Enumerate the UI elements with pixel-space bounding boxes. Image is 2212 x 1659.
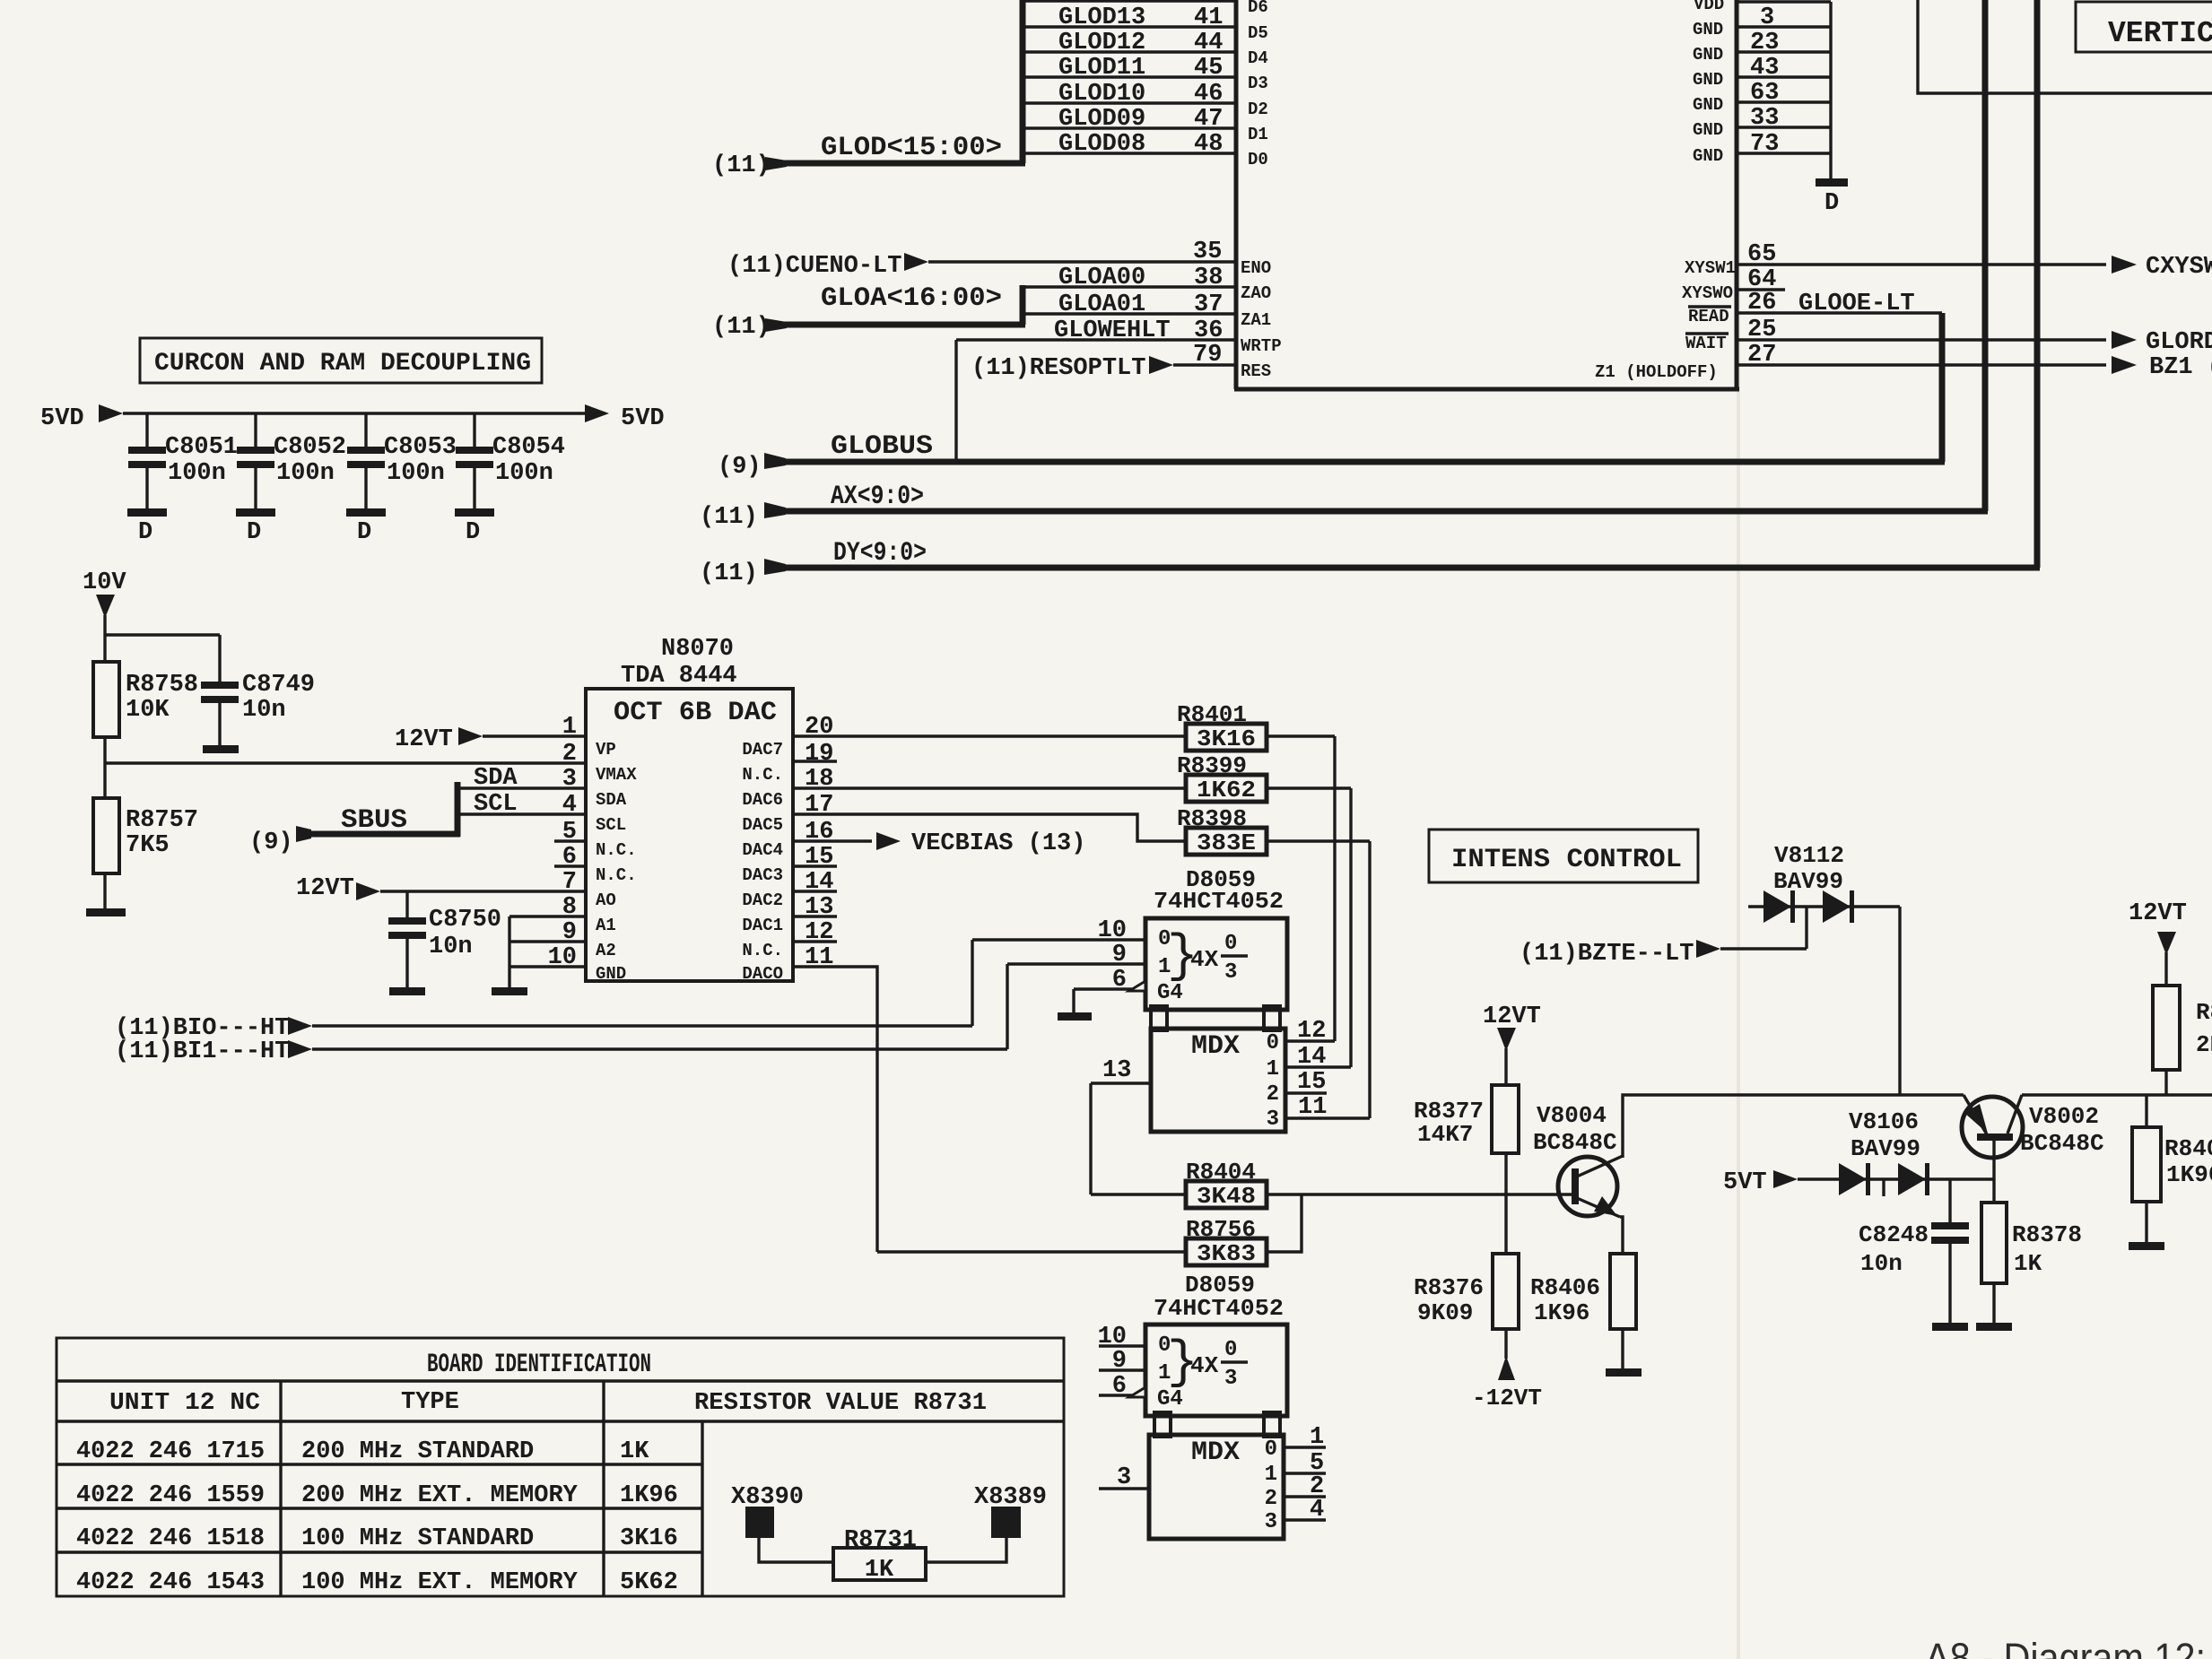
node: 12VT (right) to R8403 — [2129, 900, 2187, 986]
svg-text:0: 0 — [1224, 932, 1237, 956]
wire: RESOPTLT to pin 79 RES — [971, 342, 1271, 382]
svg-text:A8 - Diagram 12:: A8 - Diagram 12: — [1925, 1635, 2206, 1659]
svg-text:1K: 1K — [2014, 1250, 2042, 1277]
svg-text:12VT: 12VT — [1483, 1003, 1541, 1030]
ground (R8378) — [1976, 1323, 2012, 1331]
svg-text:4X: 4X — [1190, 1352, 1219, 1379]
svg-text:G4: G4 — [1157, 1387, 1183, 1411]
svg-text:74HCT4052: 74HCT4052 — [1154, 1295, 1284, 1322]
svg-text:DACO: DACO — [742, 964, 783, 984]
svg-text:A2: A2 — [596, 941, 616, 960]
node: BZTE--LT from (11) — [1520, 907, 1807, 968]
svg-text:C8051: C8051 — [165, 434, 238, 461]
svg-text:15: 15 — [1297, 1069, 1326, 1096]
svg-text:VDD: VDD — [1694, 0, 1724, 14]
svg-text:1K96: 1K96 — [1534, 1299, 1589, 1326]
svg-text:37: 37 — [1194, 291, 1223, 318]
svg-text:GLOD09: GLOD09 — [1058, 106, 1145, 133]
svg-text:25: 25 — [1747, 317, 1776, 343]
caption: A8 - Diagram 12: — [1925, 1635, 2206, 1659]
svg-text:100n: 100n — [276, 460, 335, 487]
svg-text:10V: 10V — [83, 569, 126, 596]
svg-text:BZ1 (: BZ1 ( — [2149, 354, 2212, 381]
svg-text:12VT: 12VT — [395, 726, 453, 753]
svg-text:UNIT 12 NC: UNIT 12 NC — [109, 1390, 260, 1417]
svg-text:AO: AO — [596, 890, 616, 910]
svg-text:READ: READ — [1688, 307, 1729, 326]
svg-text:R84: R84 — [2196, 999, 2212, 1026]
svg-text:1: 1 — [1310, 1424, 1324, 1451]
svg-text:3: 3 — [1267, 1107, 1279, 1132]
svg-text:N.C.: N.C. — [596, 865, 637, 885]
capacitor C8750 10n — [388, 891, 501, 995]
svg-text:GND: GND — [1693, 20, 1723, 39]
svg-text:GLOOE-LT: GLOOE-LT — [1798, 291, 1915, 317]
box: INTENS CONTROL title — [1429, 829, 1698, 882]
svg-text:1: 1 — [1267, 1057, 1279, 1081]
svg-text:43: 43 — [1750, 55, 1779, 82]
svg-text:(11)BI1---HT: (11)BI1---HT — [115, 1038, 289, 1065]
wire: DAC pin 17 DAC5 jog to R8398 — [793, 814, 1186, 841]
svg-text:C8750: C8750 — [429, 907, 501, 934]
transistor V8004 BC848C — [1533, 1102, 1623, 1217]
svg-text:TDA 8444: TDA 8444 — [621, 663, 737, 690]
wire: SDA to pin 3 — [457, 765, 586, 792]
wire: DAC pin 12 stub — [793, 940, 837, 942]
svg-text:CURCON AND RAM DECOUPLING: CURCON AND RAM DECOUPLING — [154, 350, 531, 378]
svg-text:BAV99: BAV99 — [1773, 868, 1843, 895]
wire: GND pins common to ground — [1829, 2, 1832, 180]
svg-text:0: 0 — [1267, 1031, 1279, 1055]
wire: GLOD10 row, pin 46, D2 — [1023, 81, 1268, 119]
svg-text:100 MHz EXT. MEMORY: 100 MHz EXT. MEMORY — [301, 1569, 579, 1596]
wire: corner line top right — [1918, 0, 2212, 93]
svg-text:9: 9 — [1112, 1348, 1127, 1375]
svg-text:10K: 10K — [126, 697, 170, 724]
4052 lower pin 9 — [1099, 1348, 1145, 1375]
svg-text:D2: D2 — [1248, 100, 1268, 119]
svg-text:DAC7: DAC7 — [742, 740, 783, 760]
svg-text:3: 3 — [562, 766, 577, 793]
svg-text:2: 2 — [1265, 1487, 1277, 1511]
svg-text:R8757: R8757 — [126, 807, 198, 834]
svg-text:4X: 4X — [1190, 946, 1219, 973]
wire: V8112 output down to intensity node — [1898, 907, 1901, 1095]
svg-text:WRTP: WRTP — [1241, 336, 1282, 356]
svg-text:V8002: V8002 — [2029, 1103, 2099, 1130]
svg-text:5VT: 5VT — [1723, 1169, 1767, 1196]
svg-text:14K7: 14K7 — [1417, 1121, 1473, 1148]
svg-text:ZAO: ZAO — [1241, 283, 1271, 303]
svg-text:10n: 10n — [429, 934, 473, 960]
wire: BIO---HT from (11) to 4052 pin 10 — [115, 940, 972, 1042]
wire: DAC pin 14 stub — [793, 890, 837, 892]
wire: V8002 base to 5VT node — [1992, 1141, 1995, 1203]
node: DY<9:0> bus from (11) — [700, 538, 2040, 587]
svg-text:(11)RESOPTLT: (11)RESOPTLT — [971, 355, 1145, 382]
svg-text:DAC5: DAC5 — [742, 815, 783, 835]
svg-text:12VT: 12VT — [296, 875, 354, 902]
resistor R8405 1K96 (clipped at edge) — [2132, 1095, 2212, 1244]
svg-text:GLOD11: GLOD11 — [1058, 55, 1145, 82]
DAC pin numbers right 20-11 — [805, 714, 833, 971]
svg-text:GLOA01: GLOA01 — [1058, 291, 1145, 318]
svg-text:WAIT: WAIT — [1685, 334, 1727, 353]
svg-text:2K: 2K — [2196, 1031, 2212, 1058]
node: -12VT supply — [1472, 1356, 1542, 1411]
svg-text:D6: D6 — [1248, 0, 1268, 17]
wire: DAC pin 11 DACO down to R8756 line — [793, 967, 877, 1252]
wire: intensity node right of V8002 to edge — [2022, 1093, 2212, 1096]
MDX upper right pins 0/12 1/14 2/15 3/11 — [1267, 1018, 1370, 1132]
svg-text:63: 63 — [1750, 80, 1779, 107]
svg-text:GLOBUS: GLOBUS — [831, 431, 933, 462]
pin VDD row (pin 3 box) — [1694, 0, 1831, 31]
svg-text:GND: GND — [1693, 70, 1723, 90]
svg-text:4022 246 1715: 4022 246 1715 — [76, 1438, 265, 1465]
box: CURCON AND RAM DECOUPLING title — [140, 338, 542, 383]
svg-text:41: 41 — [1194, 4, 1223, 31]
svg-text:6: 6 — [1112, 1373, 1127, 1400]
svg-text:5VD: 5VD — [40, 405, 84, 432]
svg-text:D: D — [247, 519, 261, 546]
svg-text:D: D — [357, 519, 371, 546]
svg-text:100n: 100n — [387, 460, 445, 487]
svg-text:TYPE: TYPE — [401, 1389, 459, 1416]
wire: V8004 collector up to intensity node — [1623, 1095, 1964, 1158]
node: 5VT supply — [1723, 1169, 1994, 1196]
svg-text:D4: D4 — [1248, 48, 1268, 68]
svg-text:GND: GND — [596, 964, 626, 984]
svg-text:36: 36 — [1194, 317, 1223, 344]
svg-text:SDA: SDA — [596, 790, 627, 810]
svg-text:SDA: SDA — [474, 765, 518, 792]
wire: 10V to R8758 and C8749 — [105, 635, 220, 683]
pin GND 73 — [1693, 120, 1831, 166]
svg-text:GND: GND — [1693, 146, 1723, 166]
wire: CUENO-LT to pin 35 ENO — [727, 239, 1271, 280]
svg-text:(11): (11) — [712, 152, 771, 179]
svg-text:DAC4: DAC4 — [742, 840, 783, 860]
wire: DAC pin 18 DAC6 to R8399 — [793, 786, 1186, 789]
svg-text:74HCT4052: 74HCT4052 — [1154, 888, 1284, 915]
IC MDX (lower multiplexer section) — [1149, 1435, 1284, 1539]
svg-text:GLOD<15:00>: GLOD<15:00> — [821, 133, 1002, 163]
wire: pin 64 XYSWO stub — [1682, 266, 1785, 303]
capacitor C8054 100n — [455, 413, 565, 546]
wire: V8004 emitter down to R8406 — [1620, 1217, 1623, 1254]
svg-text:-12VT: -12VT — [1472, 1385, 1542, 1411]
svg-text:V8106: V8106 — [1849, 1108, 1919, 1135]
svg-text:D: D — [466, 519, 480, 546]
svg-text:(11): (11) — [712, 314, 771, 341]
svg-text:4022 246 1559: 4022 246 1559 — [76, 1482, 265, 1509]
MDX upper pin 13 — [1091, 1057, 1151, 1194]
svg-text:11: 11 — [1298, 1094, 1327, 1121]
diode V8112 BAV99 (dual) — [1748, 842, 1900, 923]
svg-text:V8112: V8112 — [1774, 842, 1844, 869]
svg-text:DAC3: DAC3 — [742, 865, 783, 885]
svg-text:MDX: MDX — [1191, 1031, 1240, 1062]
svg-text:GND: GND — [1693, 95, 1723, 115]
svg-text:200 MHz EXT. MEMORY: 200 MHz EXT. MEMORY — [301, 1482, 579, 1509]
ground (R8405) — [2129, 1242, 2164, 1250]
IC MDX (upper multiplexer section) — [1151, 1029, 1285, 1132]
svg-text:48: 48 — [1194, 131, 1223, 158]
svg-text:10: 10 — [1098, 917, 1127, 944]
wire: VMAX node (R8758/R8757 junction to pin 2) — [105, 737, 586, 798]
resistor R8404 3K48 — [1091, 1159, 1267, 1210]
svg-text:33: 33 — [1750, 105, 1779, 132]
svg-text:R8406: R8406 — [1530, 1274, 1600, 1301]
svg-text:3: 3 — [1760, 4, 1774, 31]
svg-text:(9): (9) — [249, 829, 293, 856]
svg-text:3: 3 — [1117, 1464, 1131, 1491]
svg-text:ENO: ENO — [1241, 258, 1271, 278]
svg-text:4022 246 1518: 4022 246 1518 — [76, 1525, 265, 1552]
resistor R8757 7K5 — [93, 798, 198, 910]
resistor R8403 2K (clipped at edge) — [2153, 986, 2212, 1095]
svg-text:SCL: SCL — [474, 791, 518, 818]
node: AX bus vertical — [1982, 0, 1989, 511]
DAC pin labels right — [742, 740, 783, 984]
node: 12VT to DAC pin 7 (AO) — [296, 875, 586, 902]
svg-text:4: 4 — [1310, 1497, 1324, 1524]
svg-text:D: D — [1824, 190, 1839, 217]
svg-text:BOARD IDENTIFICATION: BOARD IDENTIFICATION — [427, 1350, 651, 1380]
svg-text:10n: 10n — [242, 697, 286, 724]
pin GND 23 — [1693, 20, 1831, 56]
svg-text:C8248: C8248 — [1859, 1221, 1929, 1248]
svg-text:1: 1 — [1265, 1463, 1277, 1487]
svg-text:N.C.: N.C. — [742, 941, 783, 960]
svg-text:23: 23 — [1750, 30, 1779, 56]
svg-text:OCT 6B DAC: OCT 6B DAC — [614, 698, 777, 728]
svg-text:R8378: R8378 — [2012, 1221, 2082, 1248]
svg-text:3: 3 — [1224, 1367, 1237, 1391]
svg-text:100n: 100n — [168, 460, 226, 487]
svg-text:D: D — [138, 519, 152, 546]
svg-text:DAC2: DAC2 — [742, 890, 783, 910]
svg-text:4022 246 1543: 4022 246 1543 — [76, 1569, 265, 1596]
node: 5VD rail — [40, 404, 665, 432]
svg-text:SCL: SCL — [596, 815, 626, 835]
svg-text:12: 12 — [1297, 1018, 1326, 1045]
4052 lower pin 10 — [1098, 1324, 1145, 1351]
svg-text:3K48: 3K48 — [1197, 1183, 1256, 1210]
wire: DAC pin 16 DAC4 to VECBIAS — [793, 830, 1085, 857]
svg-text:GND: GND — [1693, 120, 1723, 140]
IC D8059 74HCT4052 (upper) — [1145, 866, 1287, 1010]
svg-text:0: 0 — [1265, 1438, 1277, 1462]
svg-text:27: 27 — [1747, 342, 1776, 369]
wire: GLOWEHLT row, pin 36, WRTP (branches to GLOBUS) — [956, 317, 1282, 462]
wire: DAC pins 8,9,10 common to ground — [509, 916, 586, 989]
svg-text:5K62: 5K62 — [620, 1569, 678, 1596]
capacitor C8749 10n — [201, 672, 315, 753]
svg-text:13: 13 — [1102, 1057, 1131, 1084]
4052 lower to MDX connecting tabs — [1154, 1412, 1280, 1437]
svg-text:ZA1: ZA1 — [1241, 310, 1271, 330]
MDX lower pin 3 — [1099, 1464, 1149, 1491]
node: DY bus vertical — [2034, 0, 2041, 568]
svg-text:100n: 100n — [495, 460, 553, 487]
ground (R8406) — [1606, 1368, 1642, 1377]
resistor R8398 383E — [1177, 805, 1267, 856]
svg-text:C8053: C8053 — [384, 434, 457, 461]
wire: GLOA01 row, pin 37, ZA1 — [1023, 291, 1271, 330]
svg-text:AX<9:0>: AX<9:0> — [831, 482, 924, 512]
4052 upper internal legend — [1157, 927, 1248, 1005]
capacitor C8052 100n — [236, 413, 346, 546]
svg-text:R840: R840 — [2164, 1135, 2212, 1162]
node: 10V supply — [83, 569, 126, 635]
resistor R8377 14K7 — [1414, 1085, 1519, 1254]
4052 upper to MDX connecting tabs — [1151, 1006, 1280, 1030]
svg-text:3: 3 — [1224, 960, 1237, 985]
capacitor C8248 10n — [1859, 1179, 1969, 1325]
wire: base node line to V8004 — [1267, 1193, 1572, 1195]
svg-text:2: 2 — [562, 741, 577, 768]
svg-text:N.C.: N.C. — [742, 765, 783, 785]
svg-text:GLOWEHLT: GLOWEHLT — [1054, 317, 1171, 344]
wire: pin 65 XYSW1 to CXYSW — [1685, 241, 2212, 281]
4052 lower pin 6 (G4, inverted) — [1099, 1373, 1145, 1400]
svg-text:46: 46 — [1194, 81, 1223, 108]
svg-text:65: 65 — [1747, 241, 1776, 268]
node: 12VT to DAC pin 1 — [395, 726, 586, 753]
resistor R8376 9K09 — [1414, 1254, 1519, 1359]
table: BOARD IDENTIFICATION — [57, 1338, 1064, 1596]
wire: pin 25 WAIT to GLORD — [1685, 317, 2212, 356]
svg-text:26: 26 — [1747, 290, 1776, 317]
svg-text:G4: G4 — [1157, 981, 1183, 1005]
DAC pin labels left — [596, 740, 637, 984]
svg-text:14: 14 — [1297, 1044, 1326, 1071]
svg-text:9K09: 9K09 — [1417, 1299, 1473, 1326]
svg-text:GLOD08: GLOD08 — [1058, 131, 1145, 158]
capacitor C8051 100n — [127, 413, 238, 546]
svg-text:(11): (11) — [700, 504, 758, 531]
svg-text:GLOA00: GLOA00 — [1058, 265, 1145, 291]
jumper pad X8390 — [731, 1484, 833, 1562]
svg-text:0: 0 — [1224, 1338, 1237, 1362]
pin GND 63 — [1693, 70, 1831, 107]
wire: DAC pin 20 DAC7 to R8401 — [793, 734, 1186, 737]
wire: GLOD12 row, pin 44, D4 — [1023, 30, 1268, 68]
svg-text:DY<9:0>: DY<9:0> — [833, 538, 927, 569]
svg-text:D5: D5 — [1248, 23, 1268, 43]
resistor R8758 10K — [93, 662, 198, 737]
svg-text:44: 44 — [1194, 30, 1223, 56]
svg-text:N8070: N8070 — [661, 636, 734, 663]
svg-text:D1: D1 — [1248, 125, 1268, 144]
resistor R8406 1K96 — [1530, 1254, 1636, 1370]
wire: GLOD row separator D6 — [1023, 0, 1268, 17]
svg-text:1K: 1K — [620, 1438, 649, 1465]
svg-text:GLOD13: GLOD13 — [1058, 4, 1145, 31]
svg-text:9: 9 — [1112, 942, 1127, 968]
svg-text:100 MHz STANDARD: 100 MHz STANDARD — [301, 1525, 534, 1552]
svg-text:RES: RES — [1241, 361, 1271, 381]
svg-text:Z1 (HOLDOFF): Z1 (HOLDOFF) — [1595, 362, 1718, 382]
box: VERTICAL title — [2076, 2, 2212, 52]
svg-text:C8749: C8749 — [242, 672, 315, 699]
wire: SCL to pin 4 — [457, 791, 586, 818]
svg-text:3K16: 3K16 — [1197, 725, 1256, 752]
wire: pin 27 Z1 (HOLDOFF) to BZ1 — [1595, 342, 2212, 382]
svg-text:BAV99: BAV99 — [1851, 1135, 1920, 1162]
svg-text:(9): (9) — [718, 454, 762, 481]
svg-text:7K5: 7K5 — [126, 832, 170, 859]
svg-text:V8004: V8004 — [1537, 1102, 1607, 1129]
wire: DAC pin 13 stub — [793, 915, 837, 917]
svg-text:GLOD10: GLOD10 — [1058, 81, 1145, 108]
svg-text:1K62: 1K62 — [1197, 777, 1256, 803]
wire: GLOD08 row, pin 48, D0 — [1023, 131, 1268, 169]
svg-text:10n: 10n — [1860, 1250, 1903, 1277]
svg-text:(11): (11) — [700, 560, 758, 587]
svg-text:3K16: 3K16 — [620, 1525, 678, 1552]
svg-text:35: 35 — [1193, 239, 1222, 265]
svg-text:4: 4 — [562, 792, 577, 819]
transistor V8002 BC848C — [1962, 1095, 2104, 1158]
resistor R8378 1K — [1981, 1203, 2082, 1325]
svg-text:DAC1: DAC1 — [742, 916, 783, 935]
svg-text:38: 38 — [1194, 265, 1223, 291]
svg-text:VERTICA: VERTICA — [2108, 17, 2212, 50]
node: SBUS from (9) — [249, 782, 460, 856]
4052 upper pin 9 — [1007, 942, 1145, 968]
svg-text:200 MHz STANDARD: 200 MHz STANDARD — [301, 1438, 534, 1465]
svg-text:1K96: 1K96 — [620, 1482, 678, 1509]
pin GND 33 — [1693, 95, 1831, 132]
svg-text:XYSW1: XYSW1 — [1685, 258, 1736, 278]
IC D8057 main gate-array (partial, cut at top) — [1234, 0, 1739, 389]
svg-text:D3: D3 — [1248, 74, 1268, 93]
wire: R8756 output up to base node — [1267, 1194, 1302, 1252]
svg-text:GLORD: GLORD — [2146, 329, 2212, 356]
svg-text:1K: 1K — [865, 1557, 894, 1584]
svg-text:(11)CUENO-LT: (11)CUENO-LT — [727, 253, 901, 280]
svg-text:79: 79 — [1193, 342, 1222, 369]
wire: GLOD bus riser — [1020, 0, 1026, 163]
svg-text:6: 6 — [1112, 967, 1127, 994]
wire: R8398 to MDX pin 11 — [1267, 841, 1370, 1118]
ground (C8248) — [1932, 1323, 1968, 1331]
svg-text:45: 45 — [1194, 55, 1223, 82]
wire: DAC pin 19 stub — [793, 760, 837, 762]
svg-text:R8758: R8758 — [126, 672, 198, 699]
ground (DAC GND) — [492, 987, 527, 995]
IC N8070 TDA8444 OCT 6B DAC — [586, 636, 793, 981]
svg-text:R8376: R8376 — [1414, 1274, 1484, 1301]
svg-text:RESISTOR VALUE R8731: RESISTOR VALUE R8731 — [694, 1390, 987, 1417]
resistor R8731 1K — [833, 1527, 926, 1584]
svg-text:2: 2 — [1267, 1082, 1279, 1107]
svg-text:3: 3 — [1265, 1510, 1277, 1534]
svg-text:SBUS: SBUS — [341, 805, 407, 836]
svg-text:12VT: 12VT — [2129, 900, 2187, 927]
svg-text:N.C.: N.C. — [596, 840, 637, 860]
svg-text:GLOA<16:00>: GLOA<16:00> — [821, 283, 1002, 314]
svg-text:73: 73 — [1750, 131, 1779, 158]
node: 12VT to R8377 — [1483, 1003, 1541, 1085]
svg-text:19: 19 — [805, 741, 833, 768]
wire: DAC pin 15 stub — [793, 864, 837, 867]
ground D (IC ground) — [1816, 178, 1848, 217]
IC D8059 74HCT4052 (lower) — [1145, 1272, 1287, 1416]
